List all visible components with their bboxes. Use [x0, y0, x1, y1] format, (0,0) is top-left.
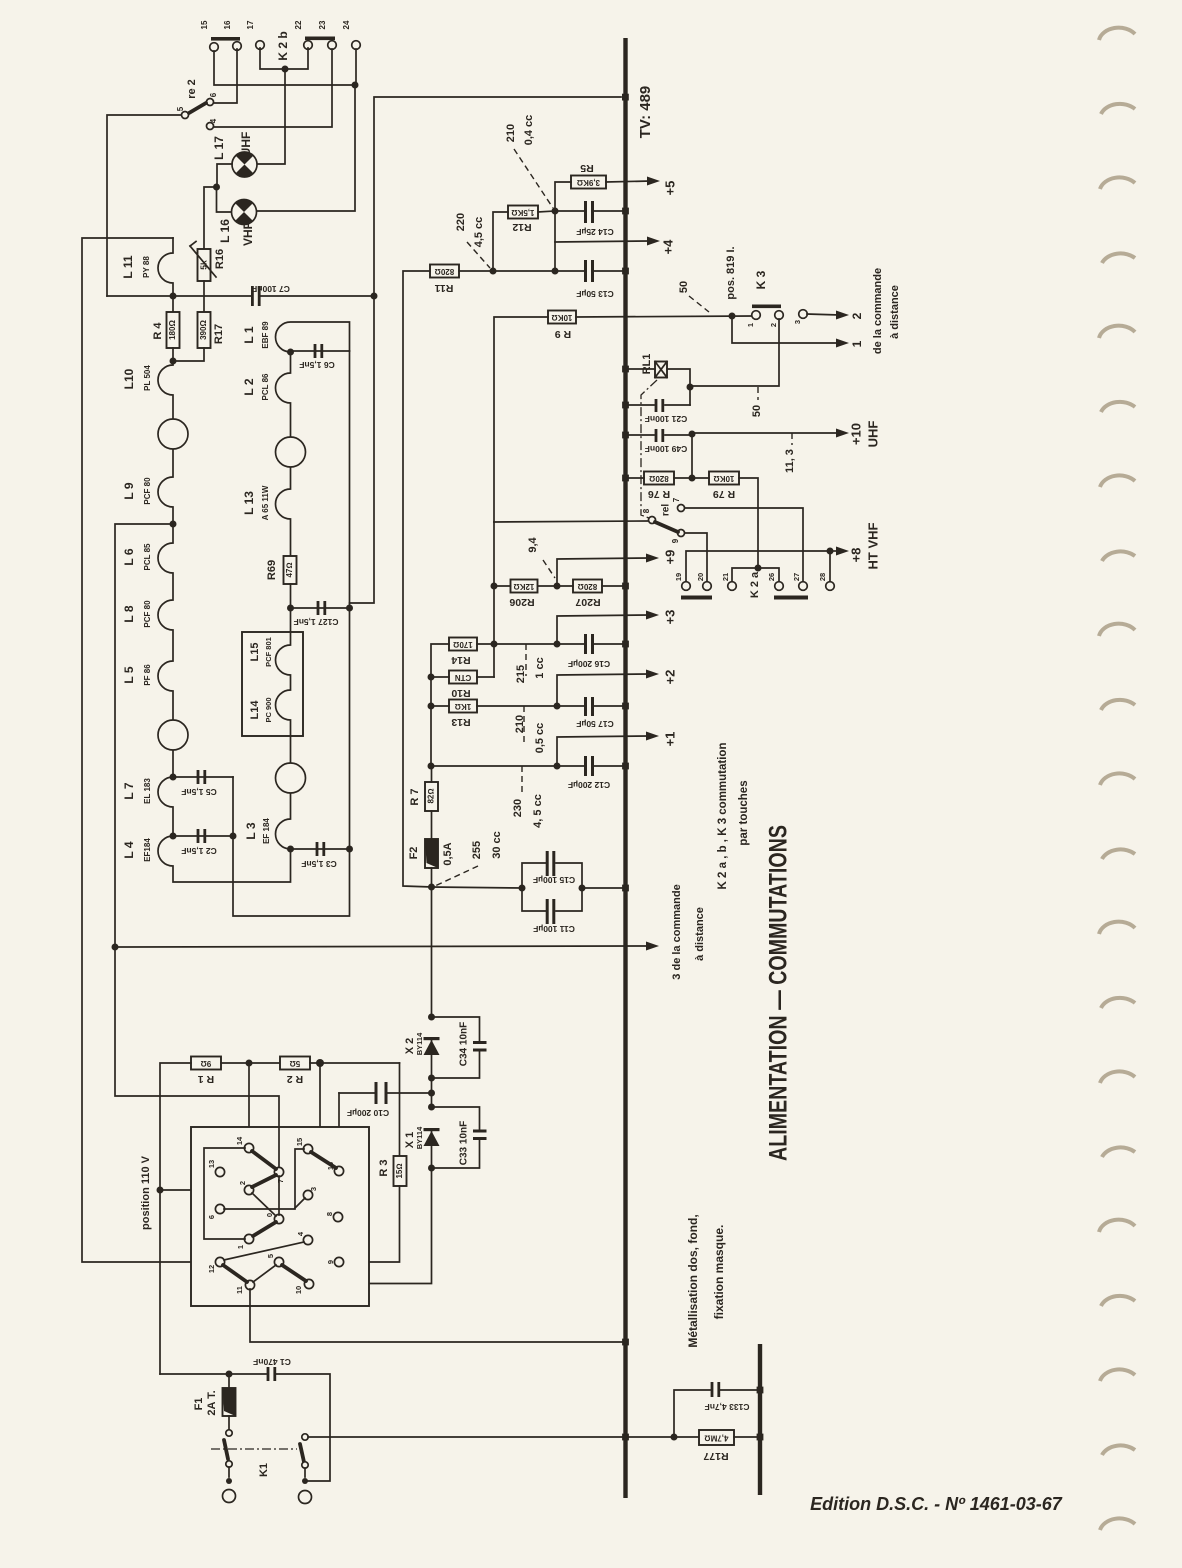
- svg-text:C1 470nF: C1 470nF: [253, 1357, 291, 1367]
- contact 3: [303, 1190, 312, 1199]
- wire X1 down to contact 10: [313, 1131, 432, 1284]
- svg-text:16: 16: [223, 20, 232, 29]
- capacitor C15 100uF loop: [522, 863, 546, 888]
- wire 24 down: [355, 49, 357, 85]
- wire rel9 to K2a-20: [685, 533, 707, 582]
- junction dot R206 left: [491, 583, 498, 590]
- svg-text:3: 3: [793, 320, 802, 324]
- junction dot chain1/C7: [170, 293, 177, 300]
- capacitor C1 470nF: [267, 1367, 270, 1381]
- svg-text:CTN: CTN: [455, 673, 472, 682]
- svg-text:19: 19: [674, 573, 683, 581]
- svg-text:C3 1,5nF: C3 1,5nF: [301, 859, 336, 869]
- wire C1 right: [276, 1374, 330, 1481]
- wire lamps to R16: [204, 187, 217, 249]
- rel contact 9: [678, 530, 685, 537]
- svg-text:L 8: L 8: [122, 605, 136, 622]
- wire +2: [557, 674, 649, 706]
- junction dot L1 bottom: [287, 349, 294, 356]
- svg-text:+3: +3: [662, 610, 677, 625]
- K2a terminal 20: [703, 582, 712, 591]
- junction dot L4 top: [170, 833, 177, 840]
- heater return wire 3 commande: [115, 946, 649, 947]
- svg-text:15: 15: [200, 20, 209, 29]
- wire 15 down: [214, 51, 355, 85]
- svg-text:R 7: R 7: [409, 788, 421, 805]
- junction dot C3 right: [346, 846, 353, 853]
- svg-text:7: 7: [672, 497, 681, 502]
- L6 group frame: [115, 524, 173, 947]
- svg-text:C127 1,5nF: C127 1,5nF: [294, 617, 339, 627]
- svg-text:5Ω: 5Ω: [290, 1059, 301, 1068]
- wire RL1 right: [667, 369, 690, 387]
- svg-text:L14: L14: [249, 700, 261, 720]
- svg-text:F1: F1: [193, 1398, 205, 1411]
- wire R16 to R17: [203, 281, 205, 312]
- svg-text:180Ω: 180Ω: [168, 320, 177, 340]
- svg-text:R 76: R 76: [648, 488, 670, 500]
- svg-text:+1: +1: [662, 732, 677, 747]
- svg-text:4,7MΩ: 4,7MΩ: [705, 1433, 729, 1442]
- wire to K3-2: [690, 319, 779, 386]
- dash-dot link RL1 to rel: [641, 380, 657, 518]
- svg-text:L 6: L 6: [122, 548, 136, 565]
- resistor R1: [191, 1057, 221, 1070]
- svg-text:R10: R10: [451, 687, 470, 699]
- svg-text:215: 215: [515, 665, 527, 683]
- bracket 21 26: [732, 568, 779, 582]
- wire R69 to C127 node: [290, 584, 292, 632]
- bracket 14-1: [204, 1148, 245, 1239]
- svg-text:+10: +10: [848, 423, 863, 445]
- svg-text:PCL 85: PCL 85: [143, 543, 152, 571]
- resistor R206: [511, 580, 538, 593]
- svg-text:0,5A: 0,5A: [442, 842, 454, 865]
- K1 coupling dash-dot: [211, 1448, 297, 1450]
- svg-text:210: 210: [514, 715, 526, 733]
- capacitor C17 50uF: [584, 697, 587, 716]
- svg-text:C33 10nF: C33 10nF: [459, 1121, 470, 1165]
- resistor R12: [508, 206, 538, 219]
- main HT bus TV.489: [623, 38, 627, 1498]
- junction dot X2 top: [428, 1014, 435, 1021]
- svg-text:170Ω: 170Ω: [453, 640, 473, 649]
- fuse F2 0,5A: [425, 839, 438, 868]
- svg-text:220: 220: [455, 213, 467, 231]
- svg-text:Edition D.S.C. - Nº 1461-03-67: Edition D.S.C. - Nº 1461-03-67: [810, 1494, 1063, 1514]
- svg-text:14: 14: [235, 1136, 244, 1145]
- svg-text:27: 27: [792, 573, 801, 581]
- K2a terminal 27: [799, 582, 808, 591]
- K2b terminal 16: [233, 42, 242, 51]
- dashed arrow 255 30cc: [435, 866, 478, 886]
- K3 terminal 2: [775, 311, 784, 320]
- wire heater top feed: [82, 238, 216, 1262]
- contact 1: [244, 1234, 253, 1243]
- capacitor C11 100uF loop: [522, 888, 546, 911]
- junction dot R79 K2a: [755, 565, 762, 572]
- svg-text:820Ω: 820Ω: [435, 267, 455, 276]
- resistor R207: [573, 580, 602, 593]
- svg-text:L 7: L 7: [122, 782, 136, 799]
- junction dot 28: [827, 548, 834, 555]
- wire 16 to re2-6: [214, 49, 237, 103]
- svg-text:+4: +4: [660, 239, 675, 255]
- wire R5 to +5: [606, 181, 650, 182]
- chassis bus metallisation: [758, 1344, 762, 1495]
- wire 11 down to bus: [250, 1289, 622, 1342]
- svg-text:9: 9: [326, 1260, 335, 1264]
- svg-text:R14: R14: [451, 654, 470, 666]
- svg-text:8: 8: [642, 508, 651, 513]
- svg-text:R11: R11: [435, 282, 454, 294]
- blade 0-1: [253, 1222, 276, 1236]
- svg-text:4: 4: [209, 118, 218, 123]
- K3 terminal 3: [799, 310, 808, 319]
- wire R9 right to K3: [576, 316, 752, 317]
- capacitor C13 50uF: [594, 270, 622, 272]
- resistor R9: [548, 311, 576, 324]
- svg-text:+8: +8: [848, 548, 863, 563]
- dashed 11,3: [791, 433, 793, 445]
- svg-text:C12 200µF: C12 200µF: [568, 780, 610, 790]
- svg-text:PY 88: PY 88: [142, 256, 151, 278]
- junction dot C15 left: [519, 885, 526, 892]
- blade 15-16: [311, 1152, 336, 1168]
- capacitor C3: [291, 848, 350, 850]
- diode X2 BY114: [424, 1037, 440, 1040]
- wire +9 from R207: [557, 558, 649, 586]
- svg-text:L 13: L 13: [242, 491, 256, 515]
- wire R11 right to C13: [459, 270, 584, 272]
- re2 blade: [189, 103, 206, 113]
- contact 2: [244, 1185, 253, 1194]
- wire R206 left: [494, 585, 511, 587]
- wire R12 right: [538, 211, 555, 212]
- K2b terminal 22: [304, 41, 313, 50]
- svg-text:rel: rel: [661, 504, 672, 516]
- dashed 50 lower: [757, 387, 759, 400]
- wire K3-1 down arrow out: [732, 316, 839, 343]
- K2b terminal 23: [328, 41, 337, 50]
- junction dot X2 bottom: [428, 1075, 435, 1082]
- switch rel contact 8: [649, 517, 656, 524]
- svg-text:PCF 80: PCF 80: [143, 477, 152, 505]
- svg-text:2: 2: [850, 312, 864, 319]
- blade 12-11: [223, 1265, 247, 1282]
- wire +8 HT VHF: [686, 551, 828, 582]
- svg-text:11, 3: 11, 3: [784, 449, 796, 473]
- connector K2b bar 22-23: [305, 37, 335, 41]
- contact 14: [244, 1143, 253, 1152]
- junction dot R76/R79: [689, 475, 696, 482]
- junction dot R11/R12: [490, 268, 497, 275]
- svg-text:C10 200µF: C10 200µF: [347, 1108, 389, 1118]
- dashed arrow 50: [689, 296, 709, 312]
- resistor R2: [280, 1057, 310, 1070]
- wire R3 down to contact 9: [343, 1186, 400, 1262]
- resistor R69: [284, 556, 297, 584]
- tube circle between L2 L13: [276, 437, 306, 467]
- wire to VHF lamp: [257, 85, 355, 211]
- blade 7-2: [252, 1175, 276, 1187]
- wire C14 node down: [554, 211, 556, 271]
- svg-text:PCF 80: PCF 80: [143, 600, 152, 628]
- K2b terminal 24: [352, 41, 361, 50]
- svg-text:VHF: VHF: [241, 222, 255, 246]
- wire C12: [431, 765, 584, 767]
- connector K3 bar: [752, 305, 781, 309]
- svg-text:L 1: L 1: [242, 326, 256, 343]
- svg-text:C133 4,7nF: C133 4,7nF: [705, 1402, 750, 1412]
- wire rel8 to R9 line: [494, 521, 649, 522]
- svg-text:R206: R206: [509, 596, 534, 608]
- resistor R79: [709, 472, 739, 485]
- junction dot RL1/C21: [687, 384, 694, 391]
- svg-text:820Ω: 820Ω: [649, 474, 669, 483]
- resistor R14: [449, 638, 477, 651]
- wire R17 bottom to chain: [173, 348, 204, 361]
- K2a terminal 26: [775, 582, 784, 591]
- contact 9: [334, 1257, 343, 1266]
- svg-text:C21 100nF: C21 100nF: [645, 414, 688, 424]
- wire re2-5 to C7 line: [107, 115, 181, 296]
- svg-text:R 9: R 9: [555, 328, 572, 340]
- svg-text:23: 23: [318, 20, 327, 29]
- svg-text:position 110 V: position 110 V: [140, 1155, 152, 1230]
- svg-text:C14 25µF: C14 25µF: [576, 227, 614, 237]
- connector K2a terminal 19: [682, 582, 691, 591]
- svg-text:5: 5: [266, 1254, 275, 1258]
- svg-text:+2: +2: [662, 670, 677, 685]
- resistor R177 4,7M: [699, 1430, 734, 1445]
- rel blade: [655, 522, 678, 532]
- svg-text:2A T.: 2A T.: [206, 1390, 218, 1415]
- svg-text:26: 26: [767, 573, 776, 581]
- thermistor R10 CTN: [449, 671, 477, 684]
- switch re2 contact 6: [207, 99, 214, 106]
- wire C15 block to bus: [582, 887, 622, 889]
- K2a terminal 28: [826, 582, 835, 591]
- contact 8: [333, 1212, 342, 1221]
- svg-text:C13 50µF: C13 50µF: [576, 289, 614, 299]
- svg-text:L15: L15: [249, 643, 261, 662]
- resistor R3: [394, 1156, 407, 1186]
- contact 10: [304, 1279, 313, 1288]
- svg-text:TV: 489: TV: 489: [637, 86, 654, 139]
- svg-text:2: 2: [769, 323, 778, 327]
- svg-text:11: 11: [235, 1286, 244, 1294]
- svg-text:L 3: L 3: [244, 822, 258, 839]
- lamp L17 UHF: [232, 152, 257, 177]
- svg-text:C17 50µF: C17 50µF: [576, 719, 614, 729]
- contact 11: [245, 1280, 254, 1289]
- svg-text:R 3: R 3: [378, 1159, 390, 1176]
- node dot 15/24: [352, 82, 359, 89]
- capacitor C34 10nF loop: [432, 1017, 480, 1042]
- svg-text:7: 7: [276, 1179, 285, 1183]
- svg-text:10: 10: [294, 1286, 303, 1294]
- selector switch box: [191, 1127, 369, 1306]
- svg-text:L 17: L 17: [212, 136, 226, 160]
- wire R2 right down to R3: [399, 1063, 401, 1156]
- junction dot C13 left: [552, 268, 559, 275]
- contact 5: [274, 1257, 283, 1266]
- wire 3 diagonal: [295, 1198, 305, 1208]
- svg-text:R 4: R 4: [152, 322, 164, 340]
- switch K1 left pole: [226, 1430, 232, 1436]
- junction dot R13 left: [428, 703, 435, 710]
- wire 17-22 join: [260, 48, 308, 69]
- svg-text:L 11: L 11: [121, 255, 135, 278]
- svg-text:50: 50: [678, 281, 690, 293]
- wire 7 up to heater tap: [115, 947, 279, 1168]
- junction dot C17 left: [554, 703, 561, 710]
- wire +3: [557, 615, 649, 644]
- svg-text:12KΩ: 12KΩ: [514, 582, 535, 591]
- wire 2-0: [252, 1193, 276, 1216]
- svg-text:K 2 a: K 2 a: [749, 571, 761, 598]
- junction dot F2 node: [428, 884, 435, 891]
- dashed arrow 210 0,4cc: [514, 149, 553, 208]
- junction dot C12 left: [554, 763, 561, 770]
- capacitor C16 200uF: [584, 634, 587, 654]
- junction dot R206/R207: [554, 583, 561, 590]
- junction dot R14/R206 rail: [491, 641, 498, 648]
- svg-text:L 4: L 4: [122, 841, 136, 858]
- arrow +4: [647, 237, 660, 246]
- capacitor C14 25uF: [555, 210, 584, 212]
- svg-text:C16 200µF: C16 200µF: [568, 659, 610, 669]
- svg-text:16: 16: [326, 1162, 335, 1170]
- wire C16: [494, 643, 584, 645]
- svg-text:22: 22: [294, 20, 303, 29]
- capacitor C2: [173, 835, 233, 837]
- tube circle below box: [276, 763, 306, 793]
- potentiometer R16 5k: [198, 249, 211, 281]
- svg-text:3 de la commande: 3 de la commande: [671, 884, 683, 979]
- junction dot C10 right: [428, 1090, 435, 1097]
- wire 14 up to R1R2: [248, 1063, 250, 1144]
- svg-text:PCL 86: PCL 86: [261, 373, 270, 401]
- svg-text:UHF: UHF: [865, 421, 880, 448]
- wire +4: [555, 241, 650, 242]
- junction square dot bus 1342: [622, 1339, 629, 1346]
- junction dot R2 right: [316, 1059, 324, 1067]
- svg-text:3: 3: [309, 1187, 318, 1191]
- wire bus to RL1: [626, 368, 655, 370]
- svg-text:0,5 cc: 0,5 cc: [534, 723, 546, 754]
- junction dot C12 rail: [428, 763, 435, 770]
- svg-text:R69: R69: [266, 560, 278, 580]
- wire 7-0: [278, 1176, 280, 1215]
- node dot lamps: [213, 184, 220, 191]
- capacitor C5: [173, 776, 233, 778]
- wire R12 left down: [493, 212, 508, 271]
- dashed arrow 220 4,5cc: [467, 242, 490, 268]
- svg-text:+5: +5: [662, 181, 677, 196]
- svg-text:UHF: UHF: [239, 132, 253, 157]
- svg-text:24: 24: [342, 20, 351, 29]
- capacitor C7 100nF: [107, 295, 252, 297]
- svg-text:8: 8: [325, 1212, 334, 1216]
- contact 13: [215, 1167, 224, 1176]
- svg-text:PL 504: PL 504: [143, 365, 152, 391]
- svg-text:pos. 819 I.: pos. 819 I.: [725, 246, 737, 299]
- capacitor C133 4,7nF: [674, 1390, 710, 1437]
- svg-text:re 2: re 2: [186, 79, 198, 99]
- switch re2 contact 4: [207, 123, 214, 130]
- wire R11 left long: [403, 271, 432, 887]
- wire R9 left column: [494, 317, 548, 522]
- svg-text:3,9KΩ: 3,9KΩ: [577, 178, 600, 187]
- contact 7: [274, 1167, 283, 1176]
- connector K2b bar 15-16: [211, 37, 240, 41]
- svg-text:6: 6: [207, 1215, 216, 1219]
- relay coil RL1: [655, 362, 667, 378]
- resistor R76: [644, 472, 674, 485]
- fuse F1 2A T: [228, 1374, 230, 1388]
- heater chain 2 L1 loop: [276, 322, 350, 352]
- svg-text:15: 15: [295, 1138, 304, 1146]
- wire to L16: [217, 187, 232, 212]
- capacitor C21 100nF: [626, 404, 654, 406]
- contact 16: [334, 1166, 343, 1175]
- wire X2 column: [431, 1040, 433, 1107]
- resistor R4: [167, 312, 180, 348]
- svg-text:47Ω: 47Ω: [285, 562, 294, 577]
- svg-text:1KΩ: 1KΩ: [455, 702, 471, 711]
- arrow +5: [647, 177, 660, 186]
- wire jog from x374 line: [350, 296, 375, 603]
- contact 4: [303, 1235, 312, 1244]
- svg-text:R207: R207: [575, 596, 600, 608]
- K2a bar 26-27: [774, 596, 808, 600]
- wire 15 up to R2 right: [312, 1063, 320, 1149]
- svg-text:C49 100nF: C49 100nF: [645, 444, 688, 454]
- svg-text:1: 1: [850, 340, 864, 347]
- capacitor C10 200uF: [339, 1092, 375, 1094]
- contact 6: [215, 1204, 224, 1213]
- svg-text:A 65 11W: A 65 11W: [261, 485, 270, 520]
- svg-text:5: 5: [176, 106, 185, 111]
- junction dot K3-1: [729, 313, 736, 320]
- resistor R11: [430, 265, 459, 278]
- wire R79 right down to K2a: [739, 478, 758, 568]
- wire R13 right to C17: [477, 705, 584, 707]
- svg-text:R12: R12: [512, 221, 531, 233]
- junction dot L7 top: [170, 774, 177, 781]
- capacitor C49 10nF: [626, 434, 654, 436]
- svg-text:255: 255: [471, 841, 483, 859]
- svg-text:C5 1,5nF: C5 1,5nF: [181, 787, 216, 797]
- blade 14-7: [252, 1151, 276, 1169]
- svg-text:15Ω: 15Ω: [395, 1163, 404, 1178]
- svg-text:EF 184: EF 184: [262, 818, 271, 844]
- wire R2 right: [310, 1062, 400, 1064]
- wire rel7 to K2a-27: [685, 508, 803, 582]
- svg-text:R 1: R 1: [198, 1073, 215, 1085]
- wire mains to F1 C1: [160, 1373, 266, 1375]
- svg-text:R16: R16: [214, 249, 226, 269]
- junction dot C15 right: [579, 885, 586, 892]
- dashed 215 1cc: [525, 644, 527, 676]
- wire K1 to chassis line: [308, 1436, 699, 1438]
- svg-text:R13: R13: [451, 716, 470, 728]
- svg-text:C15 100µF: C15 100µF: [533, 875, 575, 885]
- junction dot R4/R17: [170, 358, 177, 365]
- tube circle between L10 L9: [158, 419, 188, 449]
